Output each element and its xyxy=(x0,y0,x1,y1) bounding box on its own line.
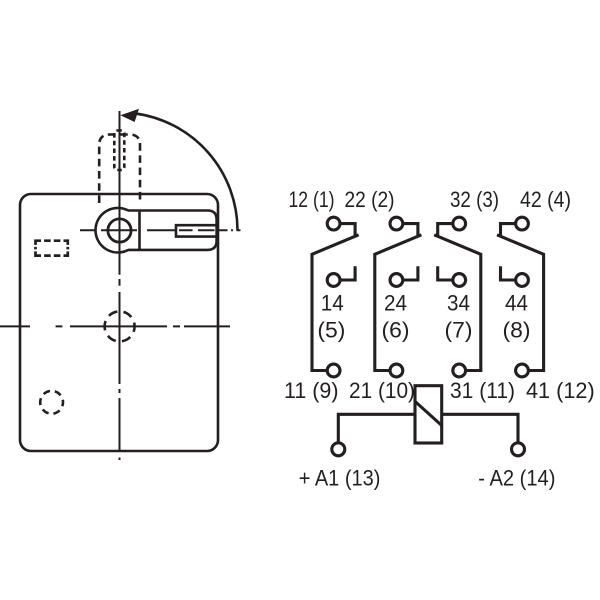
svg-text:21 (10): 21 (10) xyxy=(349,378,415,403)
svg-text:14: 14 xyxy=(321,290,344,315)
svg-text:44: 44 xyxy=(505,290,528,315)
svg-text:24: 24 xyxy=(384,290,407,315)
svg-text:31 (11): 31 (11) xyxy=(450,378,515,403)
svg-text:(7): (7) xyxy=(445,318,473,343)
svg-text:32 (3): 32 (3) xyxy=(450,187,499,212)
svg-text:34: 34 xyxy=(447,290,470,315)
svg-text:12 (1): 12 (1) xyxy=(289,187,335,212)
svg-text:41 (12): 41 (12) xyxy=(526,378,595,403)
svg-text:11 (9): 11 (9) xyxy=(284,378,339,403)
svg-text:42 (4): 42 (4) xyxy=(520,187,571,212)
svg-text:(6): (6) xyxy=(382,318,410,343)
svg-text:(8): (8) xyxy=(503,318,531,343)
svg-text:+ A1 (13): + A1 (13) xyxy=(299,466,381,491)
svg-text:22 (2): 22 (2) xyxy=(345,187,395,212)
svg-text:(5): (5) xyxy=(317,318,345,343)
svg-text:- A2 (14): - A2 (14) xyxy=(478,466,555,491)
